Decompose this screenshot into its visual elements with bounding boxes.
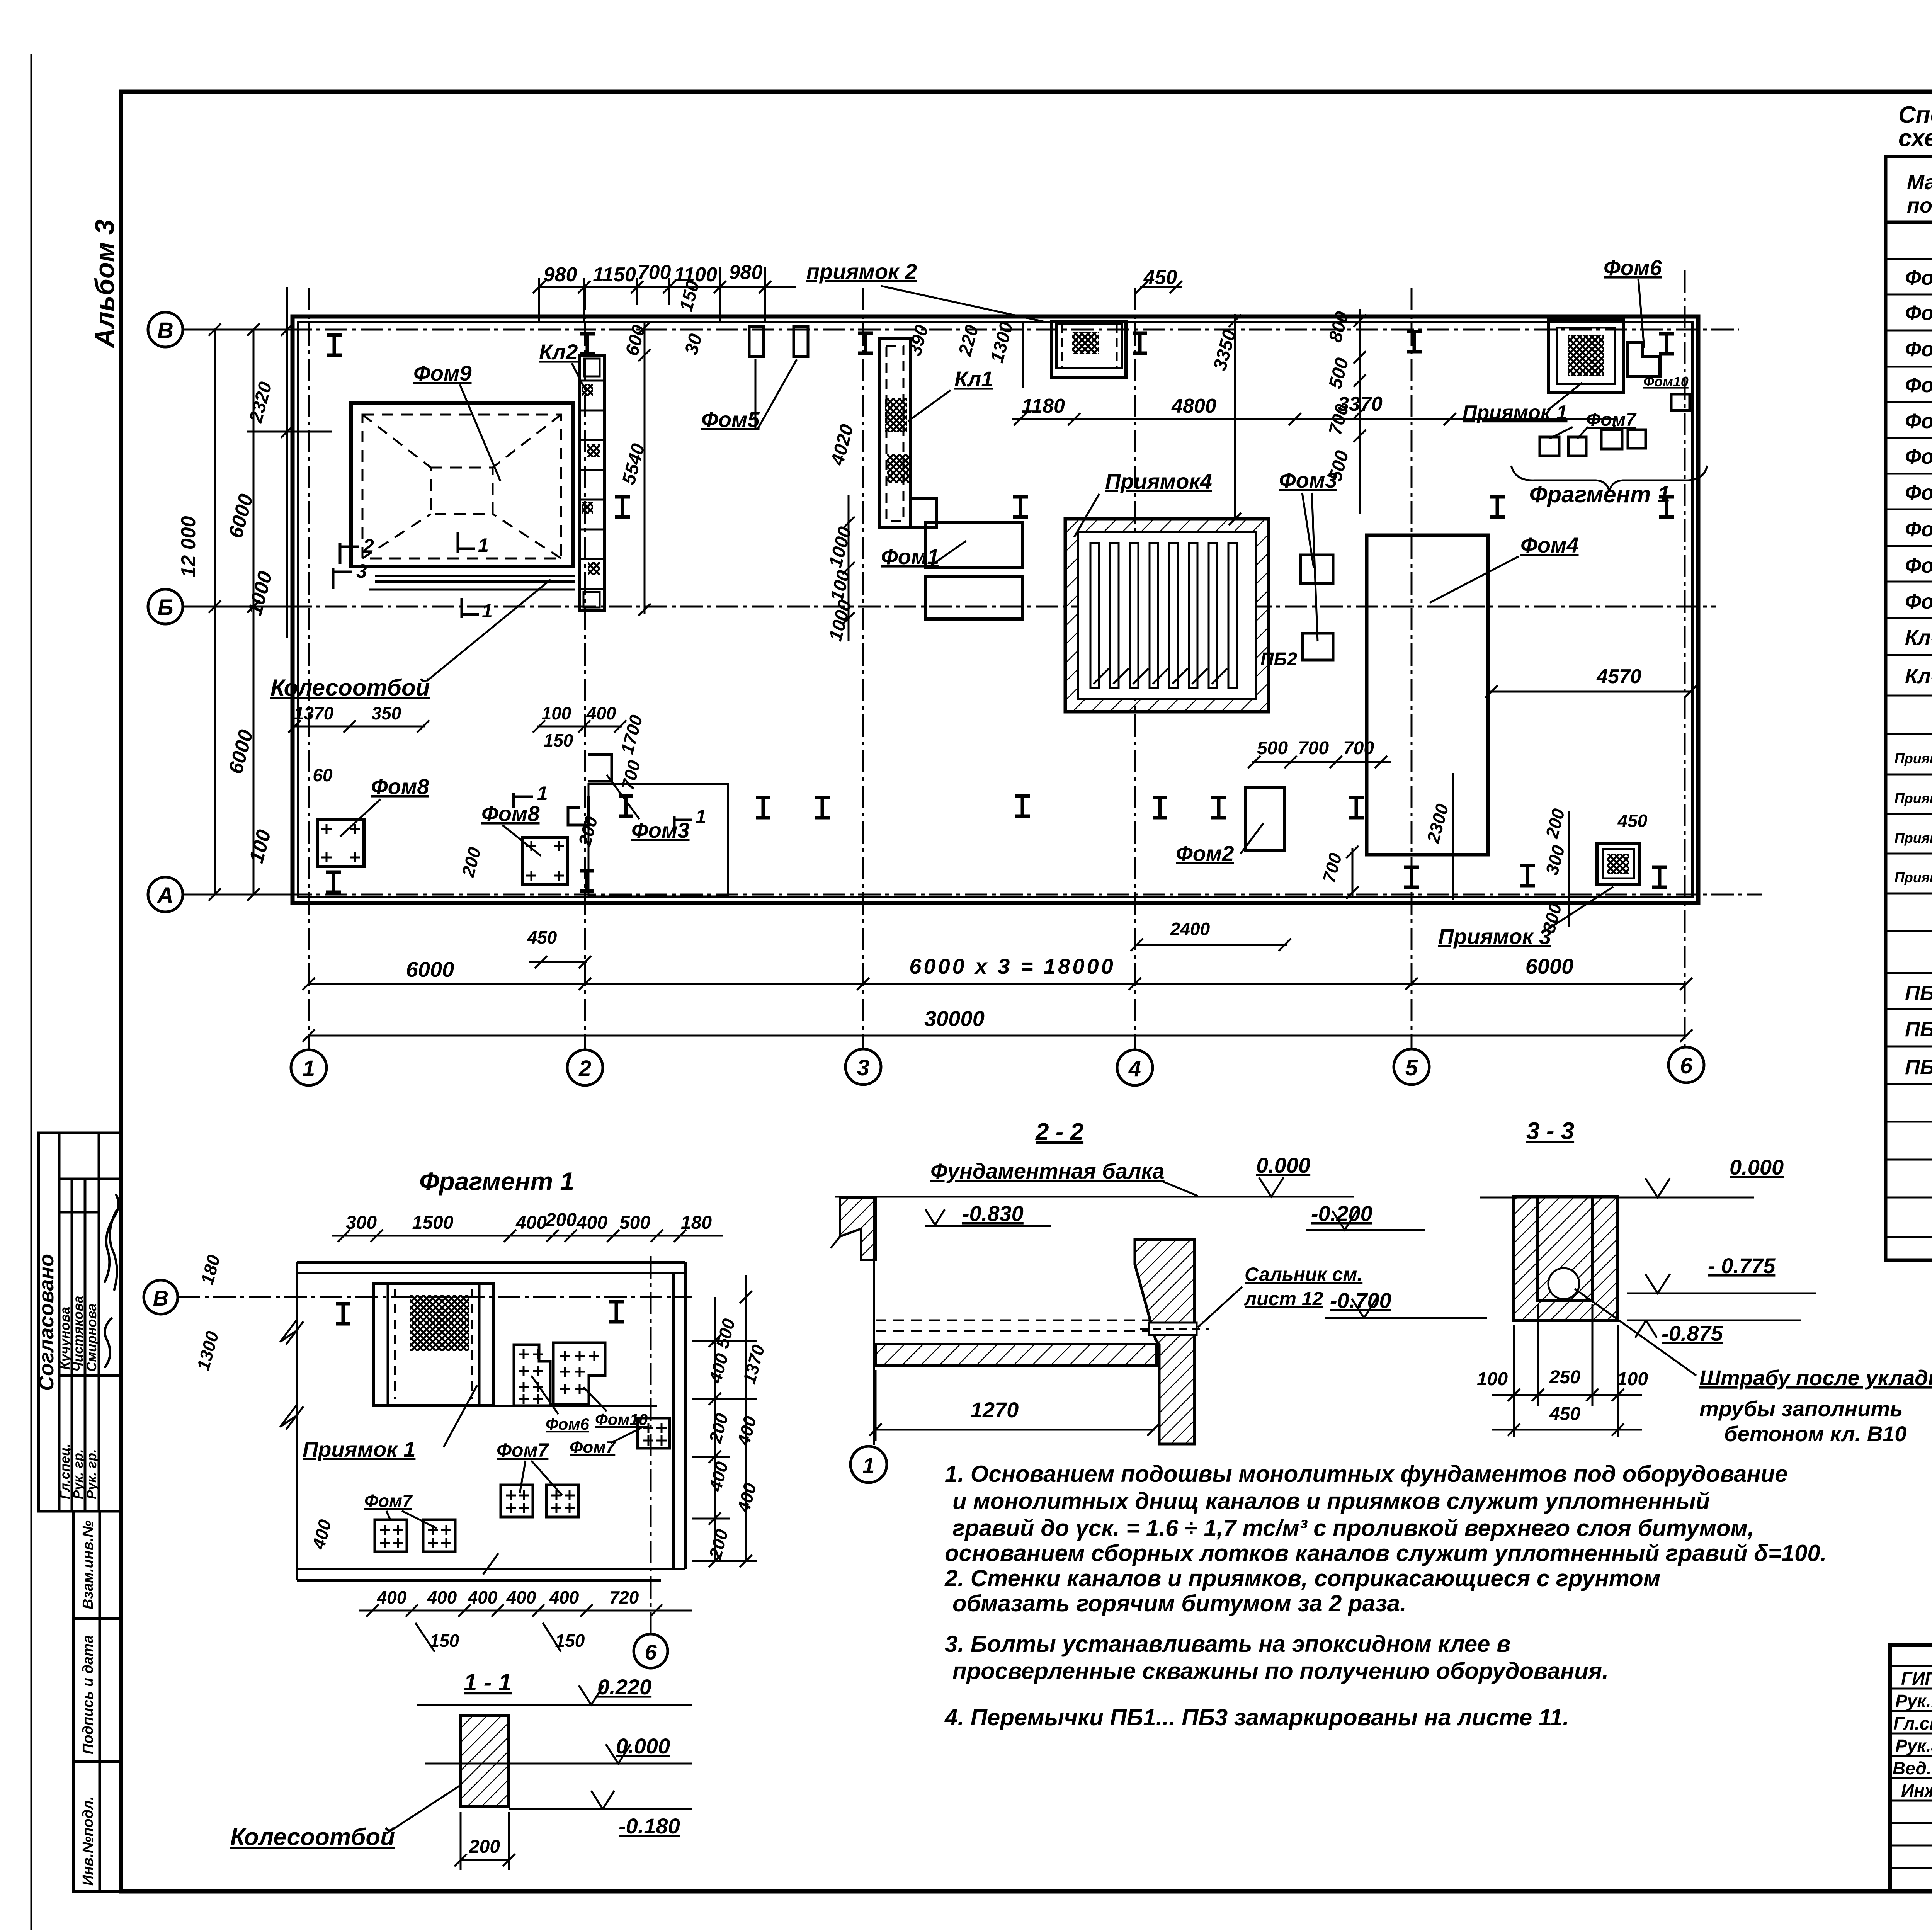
svg-text:схеме расположения подземног: схеме расположения подземного хозяйства <box>1898 125 1932 151</box>
table title <box>1898 102 1932 151</box>
svg-text:1270: 1270 <box>971 1398 1019 1422</box>
svg-text:Рук. гр.: Рук. гр. <box>84 1449 99 1499</box>
svg-text:0.000: 0.000 <box>1256 1153 1310 1177</box>
axis circle 6 <box>1668 1047 1704 1083</box>
svg-text:Кл2: Кл2 <box>539 340 578 364</box>
svg-text:1: 1 <box>862 1453 874 1478</box>
svg-text:30000: 30000 <box>924 1006 985 1031</box>
svg-text:Спецификация сборных и моно: Спецификация сборных и монолитных констр… <box>1898 102 1932 128</box>
svg-text:980: 980 <box>729 261 763 284</box>
svg-text:Приямок 1: Приямок 1 <box>303 1437 415 1461</box>
channel walls section 2-2 <box>874 1198 1151 1445</box>
svg-text:1: 1 <box>303 1056 315 1081</box>
pit приямок 1 in fragment <box>303 1284 493 1461</box>
svg-text:2 - 2: 2 - 2 <box>1035 1119 1083 1145</box>
svg-text:Фом7: Фом7 <box>570 1438 616 1457</box>
axis line 3 <box>862 288 864 1049</box>
svg-text:6: 6 <box>1680 1053 1693 1078</box>
fragment bottom dims <box>359 1587 692 1652</box>
svg-text:трубы заполнить: трубы заполнить <box>1699 1396 1903 1421</box>
table header texts <box>1907 171 1932 217</box>
level -0.180 <box>509 1791 692 1838</box>
level -0.775 <box>1627 1253 1816 1293</box>
left stamp upper block <box>39 1133 121 1511</box>
kolesootboy section hatched <box>230 1716 509 1850</box>
axis line Б <box>183 606 1716 608</box>
svg-text:1. Основанием подошвы моноли: 1. Основанием подошвы монолитных фундаме… <box>945 1461 1788 1487</box>
svg-text:Фом4: Фом4 <box>1905 374 1932 397</box>
svg-text:лист 12: лист 12 <box>1244 1288 1323 1310</box>
axis line 1 <box>308 288 310 1049</box>
axis circle 3 <box>845 1049 881 1085</box>
vertical dim line 800-500-700-500 right of Фом3 <box>1354 309 1366 514</box>
svg-text:250: 250 <box>1549 1367 1580 1388</box>
left vertical dims <box>185 287 332 895</box>
fom8 foundation 1 <box>318 774 429 866</box>
svg-text:3. Болты устанавливать на э: 3. Болты устанавливать на эпоксидном кле… <box>945 1631 1510 1657</box>
svg-text:500: 500 <box>619 1213 650 1233</box>
svg-text:150: 150 <box>430 1631 459 1651</box>
svg-text:Штрабу после укладки: Штрабу после укладки <box>1699 1366 1932 1390</box>
channel Кл2 <box>539 340 605 610</box>
svg-text:Фом2: Фом2 <box>1905 301 1932 325</box>
fom10 foundation <box>1643 374 1690 410</box>
svg-text:1150: 1150 <box>593 264 636 286</box>
bottom slab hatched section 2-2 <box>876 1344 1156 1366</box>
signatures squiggles <box>104 1194 118 1368</box>
svg-text:-0.700: -0.700 <box>1330 1288 1391 1313</box>
axis circle 2 <box>567 1050 603 1085</box>
right pillar hatched section 2-2 <box>1135 1240 1194 1444</box>
axis circle 4 <box>1117 1050 1153 1085</box>
dims 1000 100 1000 near Кл1 <box>825 524 856 643</box>
svg-text:В: В <box>157 318 173 343</box>
svg-text:Марка: Марка <box>1907 171 1932 194</box>
svg-text:Подпись и дата: Подпись и дата <box>80 1635 96 1754</box>
svg-text:400: 400 <box>576 1213 607 1233</box>
axis circle 1 <box>291 1050 327 1085</box>
svg-text:гравий до γск. = 1.6 ÷ 1,7: гравий до γск. = 1.6 ÷ 1,7 тс/м³ с проли… <box>952 1515 1754 1541</box>
svg-text:2: 2 <box>363 535 374 557</box>
fragment axis 6 <box>634 1252 668 1668</box>
svg-text:5: 5 <box>1405 1055 1418 1080</box>
svg-text:1500: 1500 <box>412 1213 454 1233</box>
building inner wall <box>298 322 1692 897</box>
svg-text:-0.200: -0.200 <box>1311 1201 1372 1226</box>
vertical dim line near приямок2 <box>1022 322 1024 388</box>
svg-text:- 0.775: - 0.775 <box>1708 1253 1776 1278</box>
fragment I-beams <box>336 1304 350 1324</box>
level 0.000 section 3-3 <box>1480 1155 1784 1197</box>
fom9 foundation <box>351 361 573 566</box>
axis line 6 <box>1684 270 1686 1048</box>
svg-text:0.000: 0.000 <box>1730 1155 1784 1179</box>
svg-text:6000: 6000 <box>406 957 454 981</box>
svg-text:100: 100 <box>1477 1369 1508 1389</box>
fom7 middle pair in fragment <box>497 1439 578 1517</box>
fom4 foundation <box>1367 533 1579 855</box>
svg-text:Фом3: Фом3 <box>631 818 690 842</box>
level line 0.000 section 2-2 <box>835 1153 1354 1197</box>
svg-text:Фундаментная балка: Фундаментная балка <box>930 1159 1165 1183</box>
svg-text:Фом2: Фом2 <box>1176 841 1234 866</box>
svg-text:В: В <box>153 1286 168 1310</box>
sheet left edge line <box>31 54 32 1930</box>
svg-text:Инв.№подл.: Инв.№подл. <box>80 1796 96 1886</box>
rotated dims right of fom3 <box>1325 309 1353 483</box>
fom1 foundation <box>881 523 1022 619</box>
svg-text:А: А <box>156 883 173 908</box>
svg-text:Взам.инв.№: Взам.инв.№ <box>80 1520 96 1609</box>
svg-text:Рук.Бр.: Рук.Бр. <box>1895 1691 1932 1711</box>
svg-text:1 - 1: 1 - 1 <box>464 1669 512 1696</box>
svg-text:Приямок 3: Приямок 3 <box>1438 924 1551 949</box>
svg-text:Фом8: Фом8 <box>371 774 429 799</box>
svg-text:4: 4 <box>1128 1056 1141 1081</box>
svg-text:400: 400 <box>506 1587 536 1607</box>
axis circle А <box>148 877 183 912</box>
section marks in plan <box>333 532 692 831</box>
svg-text:обмазать горячим битумом: обмазать горячим битумом за 2 раза. <box>952 1590 1406 1616</box>
svg-text:12 000: 12 000 <box>177 516 200 577</box>
label приямок 2 (top) <box>806 259 1043 321</box>
svg-text:Фом1: Фом1 <box>1905 266 1932 289</box>
fom5 foundations <box>701 327 808 432</box>
svg-text:3 - 3: 3 - 3 <box>1526 1118 1574 1145</box>
fom10 in fragment <box>553 1343 648 1429</box>
kolesootboy in plan <box>270 576 575 701</box>
axis line 5 <box>1411 288 1413 1049</box>
axis circle 5 <box>1394 1049 1429 1085</box>
svg-text:2400: 2400 <box>1170 919 1210 939</box>
svg-text:Фом10: Фом10 <box>1905 590 1932 613</box>
axis line А <box>183 894 1762 896</box>
dim 450 under axis2 <box>529 956 591 968</box>
dims 500 700 700 below fom3 <box>1248 738 1391 768</box>
svg-text:Фом6: Фом6 <box>1604 255 1662 280</box>
svg-text:ПБ1: ПБ1 <box>1905 981 1932 1005</box>
svg-text:400: 400 <box>468 1587 498 1607</box>
axis line B <box>183 329 1739 331</box>
axis circle B <box>148 312 183 347</box>
svg-text:1: 1 <box>696 806 706 827</box>
svg-text:ГИП: ГИП <box>1901 1668 1932 1689</box>
building outer wall <box>293 316 1698 903</box>
svg-text:Фрагмент 1: Фрагмент 1 <box>1529 481 1670 507</box>
svg-text:2. Стенки каналов и приям: 2. Стенки каналов и приямков, соприкасаю… <box>944 1565 1660 1591</box>
svg-text:Гл.спец.: Гл.спец. <box>1893 1713 1932 1733</box>
fragment axis B <box>144 1280 692 1314</box>
svg-text:ПБ2: ПБ2 <box>1905 1018 1932 1041</box>
svg-text:ПБ2: ПБ2 <box>1260 649 1298 670</box>
svg-text:Сальник см.: Сальник см. <box>1245 1264 1362 1285</box>
svg-text:Фом3: Фом3 <box>1905 338 1932 361</box>
I-beam column symbols bottom row <box>326 872 341 892</box>
level 0.000 <box>425 1734 692 1764</box>
pit приямок 3 <box>1438 843 1640 949</box>
dim row 1180 4800 3370 <box>1012 418 1615 420</box>
fom7 right in fragment <box>570 1418 670 1457</box>
small dims bottom area <box>294 703 1648 947</box>
label сальник см лист 12 <box>1198 1264 1362 1327</box>
fom6 foundation <box>1604 255 1662 377</box>
duct block section 3-3 <box>1514 1196 1618 1320</box>
svg-text:500: 500 <box>1257 738 1288 759</box>
svg-text:1: 1 <box>537 782 548 804</box>
level -0.875 <box>1627 1320 1801 1345</box>
svg-text:поз.: поз. <box>1907 194 1932 217</box>
svg-text:6000: 6000 <box>1526 954 1574 978</box>
left stamp lower block <box>73 1511 121 1891</box>
svg-text:Фом7: Фом7 <box>1586 410 1637 430</box>
pit приямок 4 <box>1065 469 1269 712</box>
axis circle 1 section 2-2 <box>850 1446 887 1483</box>
fom7 foundations group <box>1540 410 1646 456</box>
svg-text:Чистякова: Чистякова <box>71 1296 86 1372</box>
svg-text:Фом5: Фом5 <box>1905 410 1932 433</box>
svg-text:3: 3 <box>857 1055 869 1080</box>
svg-text:бетоном кл. В10: бетоном кл. В10 <box>1724 1422 1907 1446</box>
fom2 foundation <box>1176 788 1285 866</box>
I-beam column symbols middle row <box>615 497 630 517</box>
svg-text:6: 6 <box>645 1640 657 1664</box>
svg-text:150: 150 <box>544 730 573 750</box>
table grid <box>1886 156 1932 1260</box>
pit приямок 2 detail in plan <box>1052 321 1126 378</box>
break marks on fragment wall <box>280 1319 498 1575</box>
fom6 in fragment <box>514 1345 590 1433</box>
axis circle Б <box>148 589 183 624</box>
svg-text:180: 180 <box>681 1213 712 1233</box>
svg-text:350: 350 <box>372 703 401 723</box>
svg-text:Альбом 3: Альбом 3 <box>90 219 120 349</box>
svg-text:Фрагмент 1: Фрагмент 1 <box>419 1167 574 1196</box>
svg-text:Фом9: Фом9 <box>413 361 472 385</box>
svg-text:100: 100 <box>542 703 571 723</box>
svg-text:Приямок 4: Приямок 4 <box>1895 869 1932 885</box>
fragment left dims <box>193 1253 335 1552</box>
svg-text:700: 700 <box>1298 738 1329 759</box>
svg-text:400: 400 <box>427 1587 457 1607</box>
dim 1270 <box>869 1370 1160 1441</box>
svg-text:Б: Б <box>157 595 173 620</box>
svg-text:450: 450 <box>1617 811 1648 831</box>
svg-text:Фом7: Фом7 <box>497 1439 549 1461</box>
svg-text:Приямок 3: Приямок 3 <box>1895 830 1932 846</box>
svg-text:0.220: 0.220 <box>597 1675 651 1699</box>
svg-text:Фом10: Фом10 <box>1643 374 1689 389</box>
vertical dim line 5540 right of Кл2 <box>638 321 651 616</box>
dim 2300 leaders near приямок3 <box>1453 773 1569 927</box>
svg-text:400: 400 <box>515 1213 547 1233</box>
svg-text:450: 450 <box>1549 1404 1580 1424</box>
fom8 foundation 2 <box>481 801 567 884</box>
svg-text:Приямок4: Приямок4 <box>1105 469 1212 493</box>
label штрабу после укладки <box>1575 1289 1932 1446</box>
svg-text:ПБ3: ПБ3 <box>1905 1056 1932 1079</box>
axis line 2 <box>584 288 586 1049</box>
svg-text:просверленные скважины по п: просверленные скважины по получению обор… <box>952 1658 1609 1684</box>
svg-text:Смирнова: Смирнова <box>84 1303 99 1372</box>
vertical dim line 1000-100-1000 left of Фом1 <box>842 495 855 641</box>
bottom dimension row 1: 6000 segments <box>303 954 1692 990</box>
svg-text:60: 60 <box>313 765 333 785</box>
signature labels and names <box>1893 1668 1932 1801</box>
svg-text:Фом6: Фом6 <box>546 1415 590 1433</box>
dim 200 under section 1-1 <box>454 1812 515 1870</box>
svg-text:1: 1 <box>482 600 493 622</box>
svg-text:100: 100 <box>1617 1369 1648 1389</box>
сальник detail <box>1140 1323 1209 1335</box>
svg-text:400: 400 <box>549 1587 579 1607</box>
left abutment hatched <box>831 1198 876 1260</box>
svg-text:Колесоотбой: Колесоотбой <box>230 1824 395 1850</box>
svg-text:Вед.инж.: Вед.инж. <box>1893 1758 1932 1778</box>
level -0.200 <box>1306 1201 1425 1230</box>
svg-text:980: 980 <box>544 264 577 286</box>
dim lines bottom-left of fom9 <box>293 726 1287 945</box>
svg-text:-0.875: -0.875 <box>1662 1321 1723 1345</box>
svg-text:Фом8: Фом8 <box>481 801 540 826</box>
svg-text:Фом8: Фом8 <box>1905 518 1932 541</box>
svg-text:основанием сборных лотков к: основанием сборных лотков каналов служит… <box>945 1540 1827 1566</box>
I-beam column symbols inner row <box>619 796 633 816</box>
svg-text:4800: 4800 <box>1171 395 1216 417</box>
svg-text:Рук. гр.: Рук. гр. <box>71 1449 86 1499</box>
svg-text:450: 450 <box>527 927 557 947</box>
svg-text:400: 400 <box>586 703 616 723</box>
fragment 1 brace <box>1511 466 1707 507</box>
svg-text:400: 400 <box>377 1587 407 1607</box>
I-beam column symbols top row <box>327 335 342 355</box>
fom3 lower-left foundation <box>568 755 690 842</box>
svg-text:Согласовано: Согласовано <box>35 1254 58 1391</box>
bottom dimension row 2: 30000 <box>303 1006 1692 1042</box>
svg-text:Приямок 1: Приямок 1 <box>1463 401 1568 424</box>
svg-text:Инж.: Инж. <box>1901 1781 1932 1801</box>
svg-text:4570: 4570 <box>1596 665 1641 688</box>
svg-text:700: 700 <box>638 261 671 284</box>
channel Кл1 <box>879 339 993 528</box>
fragment walls <box>297 1262 685 1580</box>
svg-text:200: 200 <box>469 1837 500 1857</box>
table data rows <box>1895 266 1932 1231</box>
dims 100 250 100 450 section 3-3 <box>1477 1304 1648 1437</box>
partition room rectangle <box>588 784 728 896</box>
svg-text:и монолитных днищ каналов: и монолитных днищ каналов и приямков слу… <box>952 1488 1710 1514</box>
svg-text:150: 150 <box>555 1631 585 1651</box>
svg-text:700: 700 <box>1343 738 1374 759</box>
fom7 lower pair in fragment <box>364 1491 455 1552</box>
svg-text:720: 720 <box>609 1587 639 1607</box>
vertical dim line 700 under Фом2 <box>1346 846 1359 899</box>
pit приямок 1 <box>1463 319 1624 424</box>
svg-text:300: 300 <box>346 1213 377 1233</box>
dim 4570 <box>1485 665 1697 698</box>
svg-text:2: 2 <box>578 1056 591 1081</box>
level -0.830 <box>925 1201 1051 1226</box>
svg-text:приямок 2: приямок 2 <box>806 259 917 284</box>
level 0.220 <box>417 1675 692 1705</box>
svg-text:6000 х 3 = 18000: 6000 х 3 = 18000 <box>909 954 1116 978</box>
svg-text:200: 200 <box>545 1210 577 1230</box>
fragment right dims <box>705 1316 769 1561</box>
svg-text:1: 1 <box>478 534 489 556</box>
axis line 4 <box>1134 288 1136 1049</box>
svg-text:Фом6: Фом6 <box>1905 445 1932 468</box>
fragment top dims <box>332 1210 723 1242</box>
svg-text:Фом7: Фом7 <box>364 1491 413 1511</box>
svg-text:4. Перемычки ПБ1... ПБ3 зама: 4. Перемычки ПБ1... ПБ3 замаркированы на… <box>944 1704 1569 1730</box>
svg-text:Кл-1: Кл-1 <box>1905 626 1932 649</box>
small rotated dims top <box>245 278 1240 486</box>
svg-text:Приямок 2: Приямок 2 <box>1895 790 1932 806</box>
svg-text:Кл-2: Кл-2 <box>1905 665 1932 688</box>
svg-text:-0.830: -0.830 <box>962 1201 1024 1226</box>
svg-text:Фом7: Фом7 <box>1905 481 1932 504</box>
svg-text:Колесоотбой: Колесоотбой <box>270 675 430 701</box>
svg-text:Фом5: Фом5 <box>701 407 760 432</box>
level -0.700 <box>1325 1288 1487 1318</box>
svg-text:3: 3 <box>356 560 367 582</box>
fom3 center foundations <box>1260 468 1337 670</box>
vertical dim line 3350 to приямок4 <box>1229 314 1241 525</box>
svg-text:Кл1: Кл1 <box>954 367 993 391</box>
svg-text:Приямок 1: Приямок 1 <box>1895 750 1932 766</box>
svg-text:1180: 1180 <box>1022 395 1065 417</box>
svg-text:Фом4: Фом4 <box>1520 533 1579 557</box>
svg-text:Фом9: Фом9 <box>1905 554 1932 577</box>
svg-text:Рук.гр.: Рук.гр. <box>1895 1736 1932 1756</box>
label фундаментная балка <box>930 1159 1198 1196</box>
svg-text:450: 450 <box>1143 266 1177 289</box>
svg-text:-0.180: -0.180 <box>619 1814 680 1838</box>
